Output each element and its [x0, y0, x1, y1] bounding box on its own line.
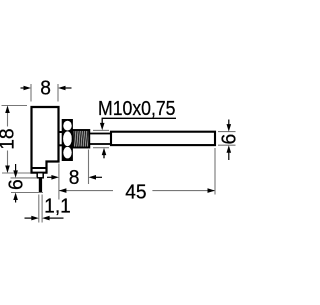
dim right 6: top arrow	[228, 120, 230, 126]
dim left 6: bottom arrow	[15, 200, 17, 203]
leader line M10	[102, 118, 176, 123]
dim top 8: right arrow	[65, 87, 72, 89]
dim left 6: top arrow	[15, 164, 17, 171]
thread OD extension stub bottom	[93, 147, 109, 149]
dim right 6: extension lines	[218, 131, 236, 133]
svg-text:6: 6	[5, 179, 27, 190]
body outline	[32, 107, 59, 173]
dim mid 8: extension lines	[58, 164, 60, 200]
thread OD extension stub top	[93, 129, 109, 131]
dim 45: right extension line	[214, 148, 216, 195]
leader arrow down	[100, 123, 105, 130]
dim 18: extension lines	[2, 105, 28, 107]
svg-text:45: 45	[125, 181, 146, 203]
dim 45: left arrow	[59, 188, 67, 193]
bushing neck	[89, 134, 111, 145]
leader arrow up	[103, 154, 105, 158]
dim 18: line + arrows	[7, 113, 9, 127]
washer hole bottom	[63, 147, 71, 159]
dim left 6: extension lines	[11, 177, 38, 179]
dim 1,1: extension lines	[38, 195, 40, 223]
dim right 6: bottom arrow	[228, 152, 230, 160]
dim mid 8: right arrow	[96, 176, 103, 178]
svg-text:6: 6	[218, 134, 236, 145]
body bottom slab divider	[32, 167, 47, 169]
svg-text:18: 18	[0, 128, 19, 149]
washer column	[58, 131, 63, 133]
svg-text:M10x0,75: M10x0,75	[98, 98, 176, 120]
washer hole top	[63, 121, 71, 131]
threaded bushing M10	[73, 130, 90, 148]
dim 45: right arrow	[208, 188, 216, 193]
svg-text:8: 8	[69, 166, 80, 188]
svg-text:8: 8	[40, 77, 51, 99]
shaft	[111, 132, 215, 145]
washer hole middle	[63, 131, 72, 146]
dim 1,1: left arrow	[25, 217, 32, 219]
svg-text:1,1: 1,1	[44, 195, 71, 217]
dim top 8: left arrow	[21, 87, 25, 89]
terminal pin	[39, 178, 42, 193]
dim 45: dimension line	[59, 190, 113, 192]
dim mid 8: left arrow	[47, 176, 52, 178]
pin base	[37, 173, 43, 178]
dim top 8: extension lines	[30, 84, 32, 102]
dim 1,1: right arrow	[49, 217, 63, 219]
